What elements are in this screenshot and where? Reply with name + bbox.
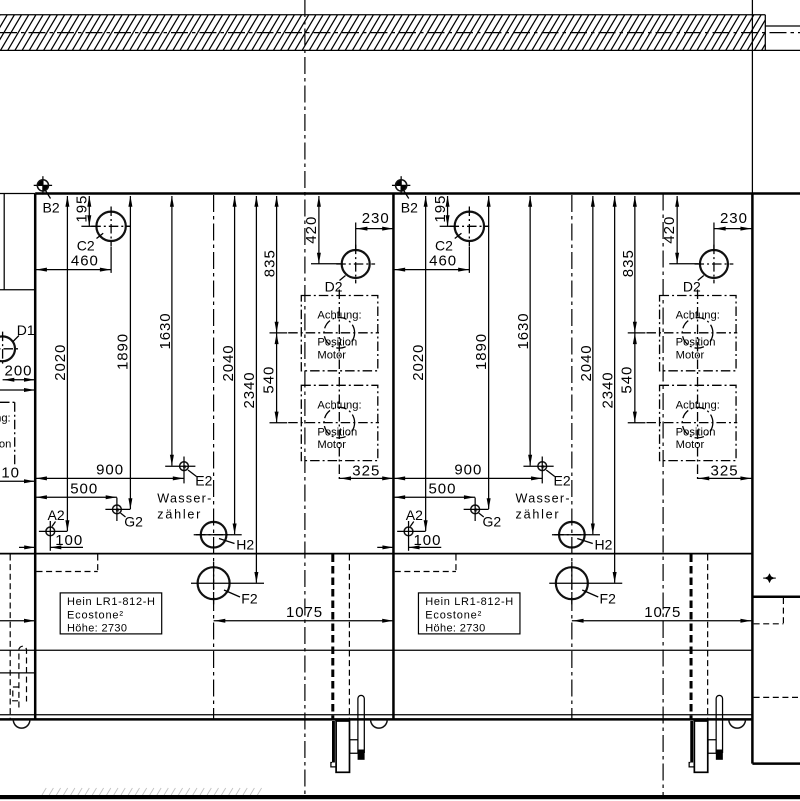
datum target B2 — [34, 176, 52, 198]
svg-text:230: 230 — [362, 210, 390, 227]
dimension 1075 — [214, 619, 394, 623]
svg-text:1630: 1630 — [157, 313, 174, 350]
dimension line 2020 — [65, 196, 69, 531]
wall bottom line — [0, 49, 800, 51]
dimension 100 — [19, 545, 83, 549]
hole H2 — [194, 522, 242, 548]
motor axis vertical — [338, 290, 340, 481]
machines top edge — [0, 193, 35, 195]
svg-text:Achtung:: Achtung: — [0, 412, 11, 424]
hidden step bracket left machine — [13, 687, 19, 701]
main centerline right bay — [662, 194, 664, 798]
svg-text:F2: F2 — [241, 590, 258, 606]
svg-text:200: 200 — [5, 362, 33, 379]
foot step bracket — [350, 740, 358, 754]
wall axis dash-dot — [0, 32, 800, 34]
svg-text:2040: 2040 — [220, 345, 237, 382]
dimension line 2340 — [254, 196, 258, 583]
svg-text:A2: A2 — [48, 507, 65, 523]
floor slab line — [0, 795, 800, 799]
wall hatch — [0, 15, 783, 51]
wall step edge — [764, 15, 766, 51]
dimension line 1630 — [170, 196, 174, 466]
right bench hidden notch — [754, 598, 784, 624]
machine A full group — [19, 176, 393, 772]
hole D1 — [0, 332, 19, 366]
dimension line 2040 — [233, 196, 237, 535]
svg-text:100: 100 — [55, 532, 82, 549]
hidden column (thick dashes) — [331, 555, 334, 720]
svg-text:835: 835 — [262, 250, 279, 278]
dimension 195 — [87, 196, 91, 226]
svg-text:zähler: zähler — [157, 507, 200, 521]
machine left edge — [34, 194, 37, 720]
svg-text:900: 900 — [96, 462, 124, 479]
wall top line — [0, 14, 765, 16]
type label box — [60, 593, 162, 635]
svg-text:1075: 1075 — [286, 604, 323, 621]
svg-text:195: 195 — [74, 195, 91, 223]
svg-text:325: 325 — [352, 463, 380, 480]
svg-text:Motor: Motor — [317, 349, 346, 361]
svg-text:Position: Position — [0, 438, 11, 450]
dimension 500 — [35, 495, 117, 499]
machine B (copy of machine A) — [377, 176, 751, 772]
wall edge vertical above machines — [751, 0, 753, 194]
machines inner horizontal line — [0, 649, 752, 651]
dimension 540 between motor axes — [270, 333, 288, 423]
left machine upper right edge — [3, 194, 5, 290]
svg-text:D2: D2 — [325, 279, 343, 295]
dimension line to edge — [0, 479, 35, 483]
right bench bottom edge — [752, 762, 800, 765]
hole A2 — [39, 521, 68, 551]
dimension 200 — [3, 378, 36, 382]
dimension 325 — [339, 476, 393, 480]
svg-text:500: 500 — [70, 481, 98, 498]
floor hatch stubs — [42, 788, 262, 795]
H2/F2 axis — [213, 195, 215, 719]
svg-text:540: 540 — [260, 366, 277, 394]
svg-text:Ecostone²: Ecostone² — [67, 609, 123, 621]
foot plate — [331, 721, 350, 772]
floor line — [0, 788, 800, 799]
hole G2 — [105, 498, 130, 521]
svg-text:Motor: Motor — [317, 439, 346, 451]
motor warning box 2 — [288, 385, 379, 460]
svg-text:E2: E2 — [195, 472, 212, 488]
hidden line next to column — [348, 555, 350, 720]
svg-text:G2: G2 — [124, 513, 143, 529]
right bench hidden shelf — [754, 696, 800, 698]
hidden edge below machine — [37, 555, 98, 572]
leveling rod — [358, 695, 365, 759]
dimension 230 — [356, 227, 394, 231]
dimension line 420 — [311, 196, 341, 264]
svg-text:Wasser-: Wasser- — [157, 492, 211, 506]
svg-text:D1: D1 — [17, 322, 35, 338]
wall continuation top line — [765, 25, 800, 27]
dimension 900 — [35, 476, 184, 480]
hidden line left machine — [9, 555, 11, 720]
svg-text:Hein LR1-812-H: Hein LR1-812-H — [67, 596, 155, 608]
main centerline left bay — [304, 0, 306, 797]
caster wheel — [371, 720, 388, 728]
wall section band (top) — [0, 15, 800, 51]
svg-text:2020: 2020 — [52, 344, 69, 381]
dimension line to edge (1075 of left machine) — [0, 619, 35, 623]
svg-text:310: 310 — [0, 465, 20, 482]
svg-text:2340: 2340 — [241, 372, 258, 409]
svg-text:B2: B2 — [43, 200, 60, 216]
machines base lines — [0, 714, 752, 716]
svg-text:420: 420 — [303, 216, 320, 244]
dimension line 1890 — [128, 196, 132, 509]
dimension 460 — [35, 247, 111, 273]
dimension line to edge — [0, 388, 35, 392]
hidden rod left machine — [19, 646, 27, 707]
hole E2 — [165, 457, 196, 484]
caster wheel left machine — [13, 720, 30, 728]
left machine top edge — [0, 289, 35, 291]
left machine motor box fragment — [0, 402, 15, 467]
right side structure — [752, 573, 800, 763]
position marker star — [764, 573, 774, 583]
dimension line 835 — [275, 196, 279, 333]
right bench top edge — [752, 595, 800, 598]
svg-text:1890: 1890 — [115, 333, 132, 370]
left machine extra line — [0, 672, 35, 674]
svg-text:H2: H2 — [236, 537, 254, 553]
machine B right edge — [751, 194, 754, 764]
hole F2 — [191, 562, 264, 604]
svg-text:Position: Position — [317, 426, 357, 438]
hole D2 — [336, 223, 375, 284]
left partial machine — [0, 194, 35, 729]
svg-text:Höhe: 2730: Höhe: 2730 — [67, 623, 127, 635]
svg-text:C2: C2 — [77, 237, 95, 253]
machines bottom of upper section — [0, 553, 752, 555]
hole C2 — [81, 207, 130, 247]
svg-text:460: 460 — [71, 253, 99, 270]
svg-text:Position: Position — [317, 337, 357, 349]
motor warning box 1 — [288, 296, 379, 371]
